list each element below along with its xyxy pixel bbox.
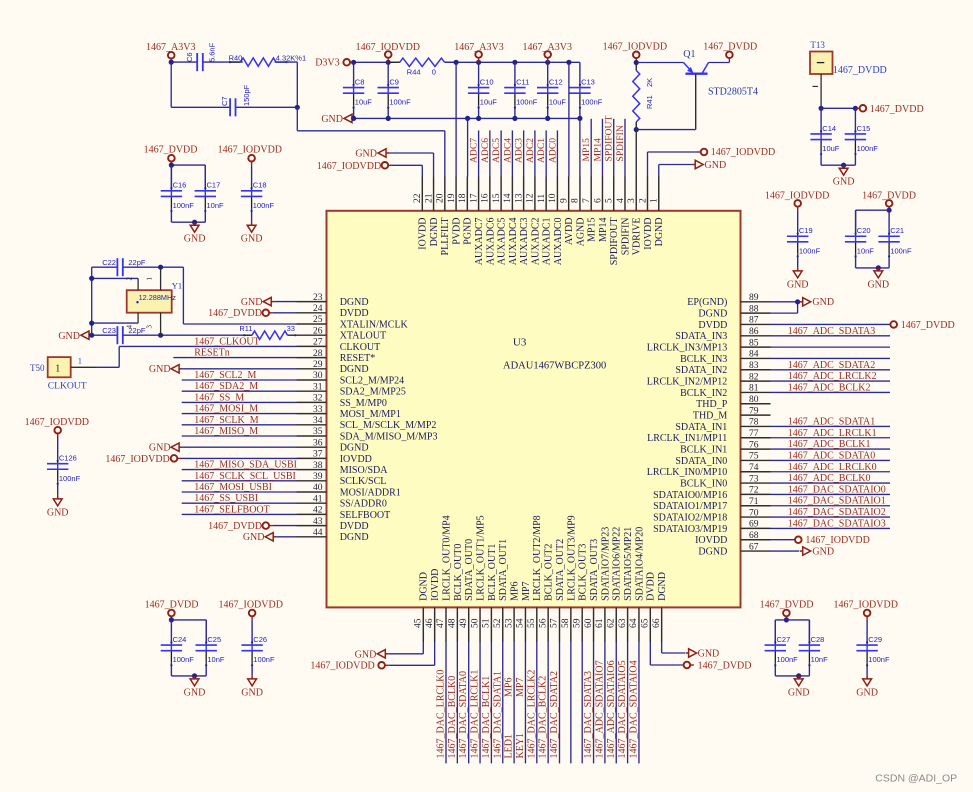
- svg-text:GND: GND: [241, 234, 263, 245]
- U3 top pin 11 (AUXADC1) stub: [545, 177, 547, 211]
- svg-text:1467_ADC_SDATA1: 1467_ADC_SDATA1: [788, 416, 876, 427]
- svg-text:10nF: 10nF: [207, 655, 225, 664]
- U3 bottom pin 57 (SDATA_OUT2) stub: [559, 607, 561, 642]
- wire/net 1467_ADC_SDATA3 on pin 86: [771, 335, 891, 337]
- svg-text:AUXADC6: AUXADC6: [485, 218, 496, 266]
- svg-text:1467_SS_USBI: 1467_SS_USBI: [194, 493, 258, 504]
- U3 right pin 72 (SDATAIO0/MP16) stub: [741, 493, 771, 495]
- U3 right pin 85 (LRCLK_IN3/MP13) stub: [741, 346, 771, 348]
- svg-text:64: 64: [629, 618, 639, 628]
- svg-text:PGND: PGND: [463, 218, 474, 245]
- svg-text:54: 54: [516, 618, 526, 628]
- junction C24/C25 gnd: [192, 673, 197, 678]
- svg-text:1467_ADC_SDATAIO6: 1467_ADC_SDATAIO6: [606, 660, 617, 758]
- U3 left pin 24 (DVDD) stub: [297, 312, 327, 314]
- svg-text:MP15: MP15: [581, 138, 592, 162]
- svg-text:C13: C13: [581, 77, 595, 86]
- U3 bottom pin 61 (SDATAIO7/MP23) stub: [604, 607, 606, 642]
- svg-text:60: 60: [584, 618, 594, 628]
- U3 bottom pin 66 (DGND) stub: [661, 607, 663, 642]
- U3 left pin 38 (MISO/SDA) stub: [297, 469, 327, 471]
- U3 right pin 78 (SDATA_IN1) stub: [741, 425, 771, 427]
- power port 1467_DVDD (C14/C15): [860, 105, 867, 112]
- svg-text:10nF: 10nF: [811, 655, 829, 664]
- U3 bottom pin 53 (MP6) stub: [513, 607, 515, 642]
- wire/net 1467_DAC_SDATA3 on pin 60: [593, 642, 595, 763]
- svg-text:1: 1: [78, 355, 82, 365]
- svg-text:21: 21: [424, 193, 434, 203]
- svg-text:R11: R11: [239, 324, 252, 333]
- ground to pin 1 (DGND): [695, 160, 703, 168]
- wire/net 1467_MOSI_USBI on pin 40: [182, 491, 297, 493]
- U3 right pin 76 (BCLK_IN1) stub: [741, 448, 771, 450]
- U3 right pin 84 (BCLK_IN3) stub: [741, 357, 771, 359]
- junction Y1 pin3: [158, 333, 163, 338]
- wire T13 pin down: [820, 74, 822, 108]
- svg-text:AUXADC3: AUXADC3: [519, 218, 530, 266]
- svg-text:AUXADC5: AUXADC5: [497, 218, 508, 266]
- svg-text:1467_DAC_LRCLK2: 1467_DAC_LRCLK2: [526, 670, 537, 759]
- power port 1467_IODVDD (C29): [864, 610, 871, 617]
- svg-text:48: 48: [448, 618, 458, 628]
- svg-text:C7: C7: [220, 96, 229, 106]
- svg-text:LRCLK_IN0/MP10: LRCLK_IN0/MP10: [647, 467, 728, 478]
- svg-text:Y1: Y1: [172, 280, 182, 290]
- svg-text:R44: R44: [407, 68, 421, 77]
- svg-text:GND: GND: [184, 687, 206, 698]
- svg-text:C6: C6: [185, 52, 194, 62]
- junction C20/C21 gnd: [876, 265, 881, 270]
- svg-text:100nF: 100nF: [857, 144, 879, 153]
- svg-text:63: 63: [618, 618, 628, 628]
- U3 top pin 15 (AUXADC5) stub: [500, 177, 502, 211]
- svg-text:70: 70: [749, 508, 759, 518]
- U3 right pin 83 (SDATA_IN2) stub: [741, 369, 771, 371]
- testpoint T50 CLKOUT: [48, 357, 71, 377]
- wire/net 1467_DAC_SDATA0 on pin 49: [468, 642, 470, 763]
- svg-text:GND: GND: [58, 331, 80, 342]
- U3 right pin 75 (SDATA_IN0) stub: [741, 459, 771, 461]
- U3 left pin 29 (DGND) stub: [297, 368, 327, 370]
- svg-text:46: 46: [425, 618, 435, 628]
- crystal Y1 12.288MHz body: [127, 290, 172, 313]
- capacitor C28 10nF: [808, 620, 810, 645]
- svg-text:8: 8: [571, 198, 581, 203]
- svg-text:33: 33: [313, 405, 323, 415]
- junction C14 top: [819, 106, 824, 111]
- svg-text:10uF: 10uF: [480, 98, 498, 107]
- svg-text:68: 68: [749, 531, 759, 541]
- svg-text:C27: C27: [777, 635, 791, 644]
- svg-text:87: 87: [749, 316, 759, 326]
- svg-text:BCLK_OUT3: BCLK_OUT3: [578, 544, 589, 601]
- svg-text:1467_ADC_LRCLK1: 1467_ADC_LRCLK1: [788, 428, 877, 439]
- U3 right pin 86 (SDATA_IN3) stub: [741, 335, 771, 337]
- svg-text:BCLK_OUT1: BCLK_OUT1: [487, 544, 498, 601]
- svg-text:SCL2_M/MP24: SCL2_M/MP24: [340, 375, 404, 386]
- svg-text:SDATAIO5/MP21: SDATAIO5/MP21: [623, 527, 634, 601]
- svg-text:C10: C10: [480, 77, 494, 86]
- wire/net 1467_SS_M on pin 32: [182, 401, 297, 403]
- svg-text:BCLK_IN1: BCLK_IN1: [680, 444, 727, 455]
- svg-text:1467_MISO_M: 1467_MISO_M: [194, 426, 258, 437]
- svg-text:1467_SCLK_M: 1467_SCLK_M: [194, 415, 259, 426]
- svg-text:BCLK_OUT0: BCLK_OUT0: [453, 544, 464, 601]
- svg-text:43: 43: [313, 517, 323, 527]
- wire/net 1467_DAC_SDATA2 on pin 57: [559, 642, 561, 763]
- svg-text:AGND: AGND: [575, 218, 586, 247]
- svg-text:47: 47: [436, 618, 446, 628]
- capacitor C8 10uF: [353, 62, 355, 87]
- svg-text:1467_DAC_LRCLK1: 1467_DAC_LRCLK1: [470, 670, 481, 759]
- svg-text:1467_DAC_SDATA1: 1467_DAC_SDATA1: [492, 671, 503, 759]
- svg-text:22: 22: [413, 193, 423, 203]
- svg-text:1467_DAC_BCLK0: 1467_DAC_BCLK0: [447, 676, 458, 759]
- svg-text:THD_M: THD_M: [693, 411, 728, 422]
- junction C10 gnd: [476, 116, 481, 121]
- svg-text:24: 24: [313, 304, 323, 314]
- wire/net 1467_DAC_SDATAIO3 on pin 69: [771, 527, 891, 529]
- svg-text:1467_DVDD: 1467_DVDD: [144, 144, 198, 155]
- svg-text:10uF: 10uF: [355, 98, 373, 107]
- svg-text:86: 86: [749, 327, 759, 337]
- svg-text:79: 79: [749, 406, 759, 416]
- svg-text:C126: C126: [59, 453, 77, 462]
- T13 pin 1 mark: [813, 85, 818, 87]
- U3 bottom pin 62 (SDATAIO6/MP22) stub: [615, 607, 617, 642]
- svg-text:15: 15: [492, 193, 502, 203]
- svg-text:1467_DVDD: 1467_DVDD: [760, 600, 814, 611]
- svg-text:DVDD: DVDD: [646, 572, 657, 601]
- svg-text:33: 33: [287, 324, 295, 333]
- svg-text:GND: GND: [856, 687, 878, 698]
- wire pin 89 EP(GND) to ground: [771, 301, 798, 303]
- wire Q1 base down: [695, 74, 697, 130]
- wire/net 1467_SELFBOOT on pin 42: [182, 513, 297, 515]
- wire PLL filter to PLLFILT pin 20: [296, 107, 298, 131]
- svg-text:C23: C23: [102, 326, 116, 335]
- U3 right pin 88 (DGND) stub: [741, 312, 771, 314]
- svg-text:DGND: DGND: [340, 532, 369, 543]
- junction C10 top: [476, 60, 481, 65]
- wire C24/C25 top node: [171, 619, 206, 621]
- svg-text:1467_A3V3: 1467_A3V3: [523, 42, 572, 53]
- svg-text:100nF: 100nF: [516, 98, 538, 107]
- wire/net 1467_DAC_LRCLK0 on pin 47: [445, 642, 447, 763]
- svg-text:DGND: DGND: [698, 546, 727, 557]
- svg-text:1467_IODVDD: 1467_IODVDD: [711, 147, 775, 158]
- svg-text:GND: GND: [149, 443, 171, 454]
- svg-text:73: 73: [749, 474, 759, 484]
- U3 right pin 73 (BCLK_IN0) stub: [741, 482, 771, 484]
- wire/net 1467_DAC_BCLK0 on pin 48: [456, 642, 458, 763]
- svg-text:LRCLK_OUT1/MP5: LRCLK_OUT1/MP5: [475, 515, 486, 601]
- U3 bottom pin 54 (MP7) stub: [524, 607, 526, 642]
- power port 1467_IODVDD to pin 68: [771, 539, 796, 541]
- svg-text:41: 41: [313, 494, 323, 504]
- U3 bottom pin 46 (IOVDD) stub: [434, 607, 436, 642]
- wire/net 1467_DAC_SDATAIO1 on pin 71: [771, 505, 891, 507]
- svg-text:SDATA_IN3: SDATA_IN3: [675, 331, 727, 342]
- capacitor C7 150pF: [229, 98, 231, 116]
- power port 1467_IODVDD (C19): [794, 200, 801, 207]
- svg-text:1467_IODVDD: 1467_IODVDD: [105, 454, 169, 465]
- svg-text:65: 65: [641, 618, 651, 628]
- U3 top pin 9 (AVDD) stub: [568, 177, 570, 211]
- wire crystal left vertical: [91, 267, 93, 335]
- wire unlabeled on pin 59: [581, 642, 583, 763]
- svg-text:31: 31: [313, 382, 323, 392]
- wire crystal line C (pin4): [92, 322, 138, 324]
- svg-text:1467_A3V3: 1467_A3V3: [146, 42, 195, 53]
- svg-text:LRCLK_OUT3/MP9: LRCLK_OUT3/MP9: [566, 515, 577, 601]
- wire/net 1467_ADC_SDATAIO6 on pin 62: [615, 642, 617, 763]
- svg-text:SDA_M/MISO_M/MP3: SDA_M/MISO_M/MP3: [340, 431, 438, 442]
- ground below C27/C28: [798, 676, 800, 679]
- svg-text:GND: GND: [241, 687, 263, 698]
- svg-text:20: 20: [436, 193, 446, 203]
- svg-text:1467_DVDD: 1467_DVDD: [833, 65, 887, 76]
- svg-text:SDATAIO2/MP18: SDATAIO2/MP18: [653, 512, 727, 523]
- wire/net 1467_ADC_BCLK1 on pin 76: [771, 448, 891, 450]
- power port 1467_IODVDD to pin 2: [701, 149, 708, 156]
- wire/net ADC2 on pin 12: [534, 130, 536, 176]
- svg-text:SDA2_M/MP25: SDA2_M/MP25: [340, 387, 406, 398]
- IC U3 ADAU1467WBCPZ300 body: [327, 211, 741, 608]
- resistor R44 0 ohm: [388, 61, 400, 63]
- wire PLL filter top rail: [171, 61, 197, 63]
- U3 bottom pin 64 (SDATAIO4/MP20) stub: [638, 607, 640, 642]
- svg-text:49: 49: [459, 618, 469, 628]
- svg-text:C11: C11: [516, 77, 529, 86]
- svg-text:MOSI/ADDR1: MOSI/ADDR1: [340, 487, 401, 498]
- svg-text:100nF: 100nF: [253, 201, 275, 210]
- U3 left pin 36 (DGND) stub: [297, 446, 327, 448]
- svg-text:SDATA_OUT1: SDATA_OUT1: [498, 539, 509, 601]
- U3 top pin 8 (AGND) stub: [579, 177, 581, 211]
- junction C27/C28 top: [784, 617, 789, 622]
- svg-text:56: 56: [538, 618, 548, 628]
- svg-text:1467_DVDD: 1467_DVDD: [901, 320, 955, 331]
- svg-text:SDATA_OUT0: SDATA_OUT0: [464, 539, 475, 601]
- junction C16/C17 gnd: [192, 220, 197, 225]
- capacitor C14 10uF: [820, 108, 822, 134]
- svg-text:1467_ADC_SDATA0: 1467_ADC_SDATA0: [788, 450, 876, 461]
- svg-text:SPDIFOUT: SPDIFOUT: [609, 218, 620, 266]
- svg-text:18: 18: [458, 193, 468, 203]
- capacitor C10 10uF: [478, 62, 480, 87]
- svg-text:DGND: DGND: [698, 309, 727, 320]
- U3 top pin 4 (SPDIFIN) stub: [624, 177, 626, 211]
- svg-text:11: 11: [537, 194, 547, 203]
- junction C9 top: [386, 60, 391, 65]
- svg-text:LRCLK_OUT2/MP8: LRCLK_OUT2/MP8: [532, 515, 543, 601]
- svg-text:KEY1: KEY1: [515, 733, 526, 759]
- U3 right pin 74 (LRCLK_IN0/MP10) stub: [741, 471, 771, 473]
- wire/net MP15 on pin 7: [590, 119, 592, 177]
- svg-text:23: 23: [313, 293, 323, 303]
- U3 top pin 22 (IOVDD) stub: [421, 177, 423, 211]
- wire XTALIN to pin 25: [182, 267, 184, 324]
- svg-text:80: 80: [749, 395, 759, 405]
- svg-text:3: 3: [627, 198, 637, 203]
- power port 1467_DVDD (Q1 collector): [726, 52, 733, 59]
- junction C11 gnd: [512, 116, 517, 121]
- U3 bottom pin 50 (LRCLK_OUT1/MP5) stub: [479, 607, 481, 642]
- svg-text:SS_M/MP0: SS_M/MP0: [340, 398, 387, 409]
- U3 top pin 14 (AUXADC4) stub: [511, 177, 513, 211]
- junction C8 gnd: [351, 116, 356, 121]
- svg-text:SDATAIO7/MP23: SDATAIO7/MP23: [600, 527, 611, 601]
- wire R40 to corner: [275, 61, 298, 63]
- svg-text:GND: GND: [705, 160, 727, 171]
- svg-text:D3V3: D3V3: [315, 58, 339, 69]
- svg-text:1467_DAC_SDATA2: 1467_DAC_SDATA2: [549, 671, 560, 759]
- svg-text:1467_MOSI_M: 1467_MOSI_M: [194, 404, 258, 415]
- svg-text:51: 51: [482, 618, 492, 628]
- ground below C14/C15: [843, 165, 845, 168]
- power port 1467_A3V3 (C12): [544, 51, 551, 58]
- junction line B: [89, 276, 94, 281]
- wire C20 branch: [856, 209, 890, 211]
- U3 top pin 6 (MP14) stub: [601, 177, 603, 211]
- svg-text:7: 7: [582, 198, 592, 203]
- svg-text:MP15: MP15: [587, 218, 598, 242]
- svg-text:DGND: DGND: [419, 572, 430, 601]
- U3 left pin 26 (XTALOUT) stub: [297, 334, 327, 336]
- svg-text:GND: GND: [833, 177, 855, 188]
- svg-text:74: 74: [749, 463, 759, 473]
- svg-text:5.6nF: 5.6nF: [207, 42, 216, 62]
- U3 right pin 67 (DGND) stub: [741, 550, 771, 552]
- U3 right pin 70 (SDATAIO2/MP18) stub: [741, 516, 771, 518]
- svg-text:13: 13: [514, 193, 524, 203]
- U3 left pin 35 (SDA_M/MISO_M/MP3) stub: [297, 435, 327, 437]
- svg-text:DVDD: DVDD: [698, 320, 727, 331]
- svg-text:1467_IODVDD: 1467_IODVDD: [310, 661, 374, 672]
- svg-text:GND: GND: [184, 234, 206, 245]
- svg-text:ADC3: ADC3: [514, 138, 525, 163]
- U3 right pin 82 (LRCLK_IN2/MP12) stub: [741, 380, 771, 382]
- junction C27/C28 gnd: [796, 673, 801, 678]
- svg-text:SDATAIO4/MP20: SDATAIO4/MP20: [634, 527, 645, 601]
- power port 1467_DVDD to pin 87: [771, 323, 891, 325]
- wire/net ADC3 on pin 13: [523, 130, 525, 176]
- wire PLL filter bottom branch: [170, 62, 172, 107]
- U3 left pin 34 (SCL_M/SCLK_M/MP2) stub: [297, 424, 327, 426]
- svg-text:85: 85: [749, 338, 759, 348]
- U3 right pin 87 (DVDD) stub: [741, 323, 771, 325]
- wire/net ADC1 on pin 11: [545, 130, 547, 176]
- U3 right pin 79 (THD_M) stub: [741, 414, 771, 416]
- svg-text:GND: GND: [243, 532, 265, 543]
- svg-text:PLLFILT: PLLFILT: [440, 218, 451, 256]
- U3 right pin 71 (SDATAIO1/MP17) stub: [741, 505, 771, 507]
- svg-text:CSDN @ADI_OP: CSDN @ADI_OP: [875, 773, 957, 785]
- svg-text:BCLK_IN0: BCLK_IN0: [680, 478, 727, 489]
- svg-text:GND: GND: [812, 546, 834, 557]
- svg-text:1: 1: [650, 198, 660, 203]
- svg-text:SS/ADDR0: SS/ADDR0: [340, 499, 387, 510]
- svg-text:89: 89: [749, 293, 759, 303]
- svg-text:1467_IODVDD: 1467_IODVDD: [765, 191, 829, 202]
- junction C11 top: [512, 60, 517, 65]
- wire AVDD rail to pin 9: [568, 62, 570, 176]
- capacitor C9 100nF: [387, 62, 389, 87]
- svg-text:0: 0: [432, 68, 436, 77]
- svg-text:38: 38: [313, 461, 323, 471]
- U3 bottom pin 65 (DVDD) stub: [649, 607, 651, 642]
- svg-text:1467_SDA2_M: 1467_SDA2_M: [194, 381, 258, 392]
- wire pin 88 DGND up to ground node: [771, 312, 798, 314]
- svg-text:100nF: 100nF: [59, 474, 81, 483]
- junction C15 top: [853, 106, 858, 111]
- wire/net 1467_ADC_BCLK0 on pin 73: [771, 482, 891, 484]
- wire/net 1467_MISO_SDA_USBI on pin 38: [182, 469, 297, 471]
- svg-text:ADC4: ADC4: [502, 138, 513, 163]
- ground for pins 89/88: [803, 298, 811, 306]
- wire/net 1467_SS_USBI on pin 41: [182, 502, 297, 504]
- svg-text:12.288MHz: 12.288MHz: [139, 293, 177, 302]
- U3 bottom pin 59 (BCLK_OUT3) stub: [581, 607, 583, 642]
- power port 1467_DVDD (C20/C21): [886, 200, 893, 207]
- U3 bottom pin 55 (LRCLK_OUT2/MP8) stub: [536, 607, 538, 642]
- svg-text:C9: C9: [389, 77, 399, 86]
- svg-text:1467_IODVDD: 1467_IODVDD: [317, 161, 381, 172]
- svg-text:LRCLK_IN2/MP12: LRCLK_IN2/MP12: [647, 377, 728, 388]
- wire C24/C25 bottom node: [171, 675, 206, 677]
- wire/net 1467_ADC_SDATA2 on pin 83: [771, 369, 891, 371]
- svg-text:75: 75: [749, 452, 759, 462]
- svg-text:SELFBOOT: SELFBOOT: [340, 510, 391, 521]
- junction C24 top: [169, 617, 174, 622]
- svg-text:4: 4: [616, 198, 626, 203]
- U3 right pin 81 (BCLK_IN2) stub: [741, 391, 771, 393]
- U3 bottom pin 58 (LRCLK_OUT3/MP9) stub: [570, 607, 572, 642]
- wire unlabeled on pin 58: [570, 642, 572, 763]
- svg-text:BCLK_OUT2: BCLK_OUT2: [544, 544, 555, 601]
- wire/net ADC0 on pin 10: [556, 130, 558, 176]
- svg-text:1467_ADC_SDATAIO7: 1467_ADC_SDATAIO7: [594, 660, 605, 758]
- svg-text:3: 3: [146, 325, 154, 329]
- wire/net 1467_ADC_SDATA0 on pin 75: [771, 459, 891, 461]
- svg-text:GND: GND: [812, 297, 834, 308]
- wire C20/C21 bottom node: [856, 267, 890, 269]
- junction PLL filter output: [295, 105, 300, 110]
- svg-text:35: 35: [313, 427, 323, 437]
- U3 left pin 43 (DVDD) stub: [297, 525, 327, 527]
- power port 1467_IODVDD (C18): [248, 155, 255, 162]
- ground to pin 66 (DGND): [661, 642, 663, 653]
- svg-text:1467_ADC_BCLK2: 1467_ADC_BCLK2: [788, 382, 871, 393]
- power port 1467_IODVDD (C26): [249, 610, 256, 617]
- svg-text:R41: R41: [645, 95, 654, 109]
- capacitor C22 22pF: [116, 258, 118, 276]
- svg-text:1467_IODVDD: 1467_IODVDD: [805, 535, 869, 546]
- svg-text:1467_SCL2_M: 1467_SCL2_M: [194, 370, 256, 381]
- ground below C20/C21: [877, 268, 879, 271]
- svg-text:100nF: 100nF: [389, 98, 411, 107]
- ground to pin 67 (DGND): [771, 550, 800, 552]
- svg-text:GND: GND: [787, 279, 809, 290]
- svg-text:77: 77: [749, 429, 759, 439]
- svg-text:1467_DVDD: 1467_DVDD: [208, 308, 262, 319]
- svg-text:10uF: 10uF: [549, 98, 567, 107]
- junction C21 top: [887, 208, 892, 213]
- wire C27/C28 bottom node: [775, 675, 809, 677]
- svg-text:61: 61: [595, 618, 605, 628]
- U3 top pin 10 (AUXADC0) stub: [556, 177, 558, 211]
